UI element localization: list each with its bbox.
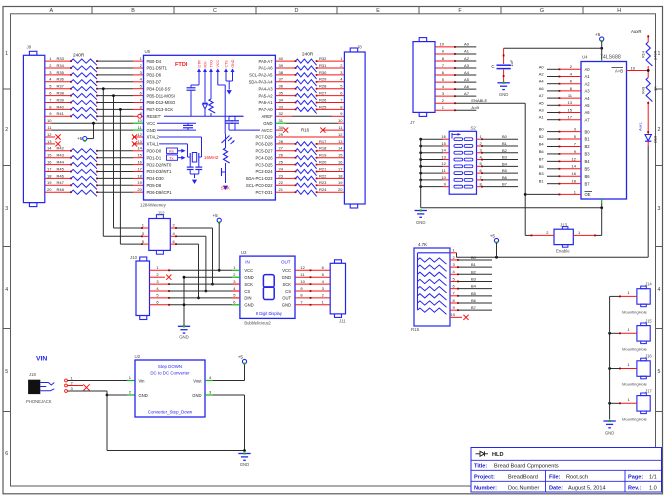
svg-text:R23: R23 (319, 180, 327, 185)
svg-text:C: C (213, 8, 217, 14)
svg-text:16: 16 (441, 134, 446, 139)
svg-text:PB0-D4: PB0-D4 (147, 59, 162, 64)
svg-text:U3: U3 (241, 250, 247, 255)
svg-text:PB7-D13-SCK: PB7-D13-SCK (147, 107, 174, 112)
svg-text:16: 16 (338, 160, 343, 165)
svg-text:XTAL2: XTAL2 (147, 135, 160, 140)
svg-text:2: 2 (658, 127, 661, 133)
svg-text:PC4-D26: PC4-D26 (255, 155, 273, 160)
svg-text:PC3-D25: PC3-D25 (255, 162, 273, 167)
svg-text:R17: R17 (319, 139, 327, 144)
svg-text:GND: GND (416, 220, 426, 225)
svg-text:34: 34 (279, 97, 284, 102)
svg-text:R48: R48 (57, 187, 65, 192)
svg-text:A5: A5 (585, 103, 591, 108)
svg-text:PB5-D11-MOSI: PB5-D11-MOSI (147, 93, 175, 98)
svg-text:VCC: VCC (244, 268, 253, 273)
svg-text:R24: R24 (319, 187, 327, 192)
svg-text:R35: R35 (57, 70, 65, 75)
svg-text:GND: GND (240, 462, 250, 467)
svg-text:Vin: Vin (139, 378, 146, 383)
svg-text:Date:: Date: (549, 485, 563, 491)
svg-text:10: 10 (47, 118, 52, 123)
svg-text:GND: GND (192, 393, 201, 398)
svg-text:VCC: VCC (282, 268, 291, 273)
svg-text:OUT: OUT (282, 296, 291, 301)
svg-text:A2: A2 (585, 81, 591, 86)
svg-text:10: 10 (300, 279, 305, 284)
svg-text:B4: B4 (585, 159, 591, 164)
svg-text:B1: B1 (502, 141, 508, 146)
svg-text:A4: A4 (464, 70, 470, 75)
svg-text:+5: +5 (490, 233, 496, 238)
svg-text:14: 14 (441, 148, 446, 153)
svg-text:R45: R45 (57, 166, 65, 171)
svg-text:19: 19 (338, 180, 343, 185)
svg-text:13: 13 (137, 139, 142, 144)
svg-text:A: A (49, 8, 53, 14)
svg-text:B7: B7 (502, 182, 508, 187)
svg-text:12: 12 (47, 132, 52, 137)
svg-text:A=B: A=B (615, 68, 623, 73)
svg-text:31: 31 (279, 118, 284, 123)
svg-text:MountingHole: MountingHole (622, 382, 647, 387)
svg-text:AREF: AREF (261, 114, 273, 119)
svg-text:B3: B3 (471, 276, 477, 281)
svg-text:GND: GND (499, 92, 509, 97)
svg-text:240R: 240R (653, 51, 658, 60)
svg-text:13: 13 (338, 139, 343, 144)
svg-text:B2: B2 (539, 134, 545, 139)
svg-text:U4: U4 (582, 55, 588, 60)
svg-text:R28: R28 (319, 84, 327, 89)
svg-text:12: 12 (572, 156, 577, 161)
svg-text:PB4-D10-SS': PB4-D10-SS' (147, 86, 172, 91)
svg-text:1.0: 1.0 (649, 485, 657, 491)
svg-text:16: 16 (137, 160, 142, 165)
svg-text:C: C (491, 64, 494, 69)
svg-text:15: 15 (137, 153, 142, 158)
svg-text:GND: GND (244, 303, 253, 308)
svg-text:PD6-D9/ICP1: PD6-D9/ICP1 (147, 190, 173, 195)
svg-text:S2: S2 (471, 126, 477, 131)
svg-text:13: 13 (47, 139, 52, 144)
svg-text:29: 29 (279, 132, 284, 137)
svg-text:+5: +5 (595, 32, 601, 37)
svg-text:A7: A7 (585, 117, 591, 122)
svg-text:R49: R49 (641, 87, 646, 94)
svg-text:13: 13 (441, 154, 446, 159)
svg-text:GND: GND (179, 335, 189, 340)
svg-text:J9: J9 (27, 45, 32, 50)
svg-text:R36: R36 (57, 77, 65, 82)
svg-text:PA4-A3: PA4-A3 (259, 86, 274, 91)
svg-text:A4: A4 (539, 79, 545, 84)
svg-text:4: 4 (5, 287, 8, 293)
svg-text:16MHZ: 16MHZ (204, 155, 219, 160)
svg-text:21: 21 (279, 187, 284, 192)
svg-text:PA7-A0: PA7-A0 (259, 107, 274, 112)
svg-text:R47: R47 (57, 180, 65, 185)
svg-text:D: D (295, 8, 299, 14)
svg-text:R39: R39 (57, 97, 65, 102)
svg-text:A6: A6 (539, 86, 545, 91)
svg-text:R46: R46 (57, 173, 65, 178)
svg-text:J8: J8 (357, 45, 362, 50)
svg-text:GND: GND (282, 303, 291, 308)
svg-text:Step DOWN: Step DOWN (158, 364, 182, 369)
svg-text:A5: A5 (464, 77, 470, 82)
svg-text:20: 20 (338, 187, 343, 192)
svg-text:240R: 240R (302, 52, 314, 57)
svg-text:R41: R41 (57, 111, 65, 116)
svg-text:B: B (131, 8, 135, 14)
svg-text:PB1-D5/T1: PB1-D5/T1 (147, 66, 168, 71)
svg-text:5: 5 (5, 369, 8, 375)
svg-text:R32: R32 (319, 56, 327, 61)
svg-text:PD0-D0: PD0-D0 (147, 149, 162, 154)
svg-text:B5: B5 (585, 167, 591, 172)
svg-text:AVCC: AVCC (261, 128, 272, 133)
svg-text:8 Digit Display: 8 Digit Display (256, 311, 283, 316)
svg-text:CS: CS (244, 289, 250, 294)
svg-text:14: 14 (137, 146, 142, 151)
svg-text:GND: GND (282, 275, 291, 280)
svg-text:20: 20 (47, 187, 52, 192)
svg-text:CS: CS (285, 289, 291, 294)
svg-text:H: H (617, 8, 621, 14)
svg-text:A2: A2 (539, 72, 545, 77)
svg-text:12: 12 (338, 132, 343, 137)
svg-text:J16: J16 (645, 354, 652, 359)
svg-text:19: 19 (47, 180, 52, 185)
svg-text:R44: R44 (57, 160, 65, 165)
svg-text:J14: J14 (645, 282, 652, 287)
svg-text:26: 26 (279, 153, 284, 158)
svg-text:August 5, 2014: August 5, 2014 (568, 485, 606, 491)
svg-text:1K: 1K (653, 86, 658, 91)
svg-text:DIN: DIN (244, 296, 251, 301)
svg-text:PB3-D7: PB3-D7 (147, 80, 162, 85)
svg-text:1: 1 (5, 51, 8, 57)
svg-text:B4: B4 (539, 141, 545, 146)
svg-text:XTAL1: XTAL1 (147, 142, 160, 147)
svg-text:1: 1 (658, 51, 661, 57)
svg-text:R15: R15 (411, 327, 420, 332)
svg-text:A0: A0 (585, 67, 591, 72)
svg-text:14: 14 (338, 146, 343, 151)
svg-text:A3: A3 (585, 89, 591, 94)
svg-text:35: 35 (279, 91, 284, 96)
svg-text:A6: A6 (585, 110, 591, 115)
svg-text:PA1-A6: PA1-A6 (259, 66, 274, 71)
svg-text:40: 40 (279, 56, 284, 61)
svg-text:PD1-D1: PD1-D1 (147, 155, 162, 160)
svg-text:J17: J17 (645, 389, 652, 394)
svg-text:R27: R27 (319, 91, 327, 96)
svg-text:MountingHole: MountingHole (622, 309, 647, 314)
svg-text:PB2-D6: PB2-D6 (147, 73, 162, 78)
svg-text:A3: A3 (464, 63, 470, 68)
svg-text:6: 6 (5, 451, 8, 457)
svg-text:16: 16 (572, 171, 577, 176)
svg-text:DC to DC Converter: DC to DC Converter (150, 371, 190, 376)
svg-text:PHONEJACK: PHONEJACK (26, 399, 52, 404)
svg-text:A5: A5 (539, 100, 545, 105)
svg-text:10: 10 (441, 175, 446, 180)
svg-text:Rev.:: Rev.: (628, 485, 641, 491)
svg-text:PD3-D3/INT1: PD3-D3/INT1 (147, 169, 173, 174)
svg-text:Bubblelicious2: Bubblelicious2 (244, 321, 271, 326)
svg-text:R26: R26 (319, 97, 327, 102)
svg-text:240R: 240R (73, 53, 85, 58)
svg-text:37: 37 (279, 77, 284, 82)
svg-text:A7: A7 (539, 93, 545, 98)
svg-text:R20: R20 (319, 160, 327, 165)
svg-text:5: 5 (658, 369, 661, 375)
svg-text:Title:: Title: (474, 463, 487, 469)
svg-text:A0: A0 (464, 42, 470, 47)
svg-text:J15: J15 (645, 319, 652, 324)
svg-text:10: 10 (338, 118, 343, 123)
svg-text:SDA-PA3-A4: SDA-PA3-A4 (249, 80, 274, 85)
svg-text:B4: B4 (502, 161, 508, 166)
svg-text:B1: B1 (539, 179, 545, 184)
svg-text:PD4-D30: PD4-D30 (147, 176, 165, 181)
svg-text:J11: J11 (339, 319, 346, 324)
svg-text:VIN: VIN (36, 356, 47, 363)
svg-text:A0: A0 (539, 64, 545, 69)
svg-text:MountingHole: MountingHole (622, 416, 647, 421)
svg-text:SCK: SCK (282, 282, 291, 287)
svg-text:18: 18 (137, 173, 142, 178)
svg-text:15: 15 (47, 153, 52, 158)
svg-text:GND: GND (147, 128, 156, 133)
svg-text:DTR: DTR (197, 60, 201, 68)
svg-text:25: 25 (279, 160, 284, 165)
svg-text:J12: J12 (158, 211, 166, 216)
svg-text:PC7-D29: PC7-D29 (255, 135, 273, 140)
svg-text:B1: B1 (471, 262, 477, 267)
svg-text:B6: B6 (502, 175, 508, 180)
svg-text:G: G (540, 8, 544, 14)
svg-text:R14: R14 (641, 50, 646, 58)
svg-text:18: 18 (338, 173, 343, 178)
svg-text:PA6-A1: PA6-A1 (259, 100, 274, 105)
svg-text:AuxL: AuxL (638, 121, 643, 131)
svg-text:R38: R38 (57, 91, 65, 96)
svg-text:32: 32 (279, 111, 284, 116)
svg-text:OUT: OUT (281, 260, 291, 265)
svg-text:Rx: Rx (169, 148, 174, 153)
svg-text:GND: GND (263, 121, 272, 126)
svg-text:GND: GND (605, 431, 615, 436)
svg-text:R30: R30 (319, 70, 327, 75)
svg-text:30: 30 (279, 125, 284, 130)
svg-text:22: 22 (279, 180, 284, 185)
svg-text:13: 13 (568, 100, 573, 105)
svg-text:PC7-D31: PC7-D31 (255, 190, 273, 195)
svg-text:B2: B2 (471, 269, 477, 274)
svg-text:12: 12 (441, 161, 446, 166)
svg-text:BreadBoard: BreadBoard (508, 474, 538, 480)
svg-text:19: 19 (137, 180, 142, 185)
svg-text:OE: OE (585, 192, 591, 197)
svg-text:PB6-D12-MISO: PB6-D12-MISO (147, 100, 177, 105)
svg-text:VCC: VCC (147, 121, 156, 126)
svg-text:B5: B5 (539, 164, 545, 169)
svg-text:VCC: VCC (216, 60, 220, 68)
svg-text:24: 24 (279, 166, 284, 171)
svg-text:17: 17 (47, 166, 52, 171)
svg-text:B3: B3 (502, 155, 508, 160)
svg-text:38: 38 (279, 70, 284, 75)
svg-text:A1: A1 (464, 49, 470, 54)
svg-text:R40: R40 (57, 104, 65, 109)
svg-text:File:: File: (549, 474, 561, 480)
svg-text:4.7K: 4.7K (418, 242, 427, 247)
svg-text:GND: GND (244, 275, 253, 280)
svg-text:1284Weeney: 1284Weeney (140, 203, 167, 208)
svg-text:R43: R43 (57, 153, 65, 158)
svg-text:AuxR: AuxR (631, 29, 642, 34)
svg-text:Page:: Page: (628, 474, 643, 480)
svg-text:R37: R37 (57, 84, 65, 89)
svg-text:3: 3 (5, 206, 8, 212)
svg-text:Bread Board Cpmponents: Bread Board Cpmponents (494, 463, 559, 469)
svg-text:15: 15 (441, 141, 446, 146)
svg-text:B3: B3 (539, 171, 545, 176)
svg-text:Number:: Number: (474, 485, 497, 491)
svg-text:GND: GND (139, 393, 148, 398)
svg-text:A1: A1 (539, 115, 545, 120)
svg-text:19: 19 (631, 65, 636, 70)
svg-text:B7: B7 (539, 156, 545, 161)
svg-text:Tx: Tx (169, 155, 173, 160)
svg-text:PD5-D8: PD5-D8 (147, 183, 162, 188)
svg-text:SCK: SCK (244, 282, 253, 287)
svg-text:R42: R42 (57, 146, 65, 151)
svg-text:Root.sch: Root.sch (566, 474, 588, 480)
svg-text:R33: R33 (57, 56, 65, 61)
svg-text:17: 17 (338, 166, 343, 171)
svg-text:U5: U5 (145, 49, 151, 54)
svg-text:IN: IN (245, 260, 250, 265)
svg-text:J18: J18 (29, 372, 37, 377)
svg-text:SDA-PC1-D23: SDA-PC1-D23 (246, 176, 274, 181)
svg-text:R25: R25 (319, 104, 327, 109)
svg-text:HLD: HLD (492, 452, 504, 458)
svg-text:R19: R19 (319, 153, 327, 158)
svg-text:14: 14 (47, 146, 52, 151)
svg-text:1uF: 1uF (509, 59, 514, 66)
svg-text:PC6-D28: PC6-D28 (255, 142, 273, 147)
svg-text:PD2-D2/INT0: PD2-D2/INT0 (147, 162, 173, 167)
svg-text:A2: A2 (464, 56, 470, 61)
svg-text:B5: B5 (471, 291, 477, 296)
svg-text:GND: GND (231, 59, 235, 67)
svg-text:B6: B6 (585, 174, 591, 179)
svg-text:12: 12 (300, 265, 305, 270)
svg-text:PA0-A7: PA0-A7 (259, 59, 274, 64)
svg-text:A3: A3 (539, 108, 545, 113)
svg-text:FTDI: FTDI (175, 62, 188, 68)
svg-text:18: 18 (572, 179, 577, 184)
svg-text:B0: B0 (471, 255, 477, 260)
svg-text:Project:: Project: (474, 474, 495, 480)
svg-text:36: 36 (279, 84, 284, 89)
svg-text:J7: J7 (410, 120, 415, 125)
svg-text:SCK: SCK (221, 186, 230, 191)
svg-text:17: 17 (137, 166, 142, 171)
svg-text:J13: J13 (560, 223, 568, 228)
svg-text:A7: A7 (464, 91, 470, 96)
svg-text:+5: +5 (238, 354, 244, 359)
svg-text:B2: B2 (585, 144, 591, 149)
svg-text:B0: B0 (502, 134, 508, 139)
svg-text:CTS: CTS (224, 60, 228, 68)
svg-text:20: 20 (137, 187, 142, 192)
svg-text:TXO: TXO (209, 60, 213, 68)
svg-text:+5: +5 (212, 213, 218, 218)
svg-text:Enable: Enable (556, 249, 570, 254)
svg-text:39: 39 (279, 63, 284, 68)
svg-text:4: 4 (658, 287, 661, 293)
svg-text:3: 3 (658, 206, 661, 212)
svg-text:B6: B6 (539, 149, 545, 154)
svg-text:SCL-PC0-D22: SCL-PC0-D22 (246, 183, 273, 188)
svg-text:28: 28 (279, 139, 284, 144)
svg-text:Vout: Vout (193, 378, 202, 383)
svg-text:+5: +5 (77, 136, 83, 141)
svg-text:B0: B0 (539, 127, 545, 132)
svg-text:PC5-D27: PC5-D27 (255, 149, 273, 154)
svg-text:RESET': RESET' (147, 114, 162, 119)
svg-text:16: 16 (47, 160, 52, 165)
svg-text:B3: B3 (585, 152, 591, 157)
svg-text:10: 10 (440, 42, 445, 47)
svg-text:Converter_Step_Down: Converter_Step_Down (148, 410, 193, 415)
svg-text:R16: R16 (301, 127, 310, 132)
svg-text:RXI: RXI (203, 62, 207, 68)
svg-text:A4: A4 (585, 96, 591, 101)
svg-text:ENABLE: ENABLE (471, 98, 487, 103)
svg-text:R31: R31 (319, 63, 327, 68)
svg-text:A=B: A=B (471, 105, 479, 110)
svg-text:B6: B6 (471, 298, 477, 303)
svg-text:R34: R34 (57, 63, 65, 68)
svg-text:U2: U2 (135, 354, 141, 359)
svg-text:15: 15 (338, 153, 343, 158)
svg-text:R29: R29 (319, 77, 327, 82)
svg-text:A1: A1 (585, 74, 591, 79)
svg-text:23: 23 (279, 173, 284, 178)
svg-text:B5: B5 (502, 168, 508, 173)
svg-text:74LS688: 74LS688 (600, 55, 621, 61)
svg-text:B4: B4 (471, 284, 477, 289)
svg-text:MountingHole: MountingHole (622, 346, 647, 351)
svg-text:12: 12 (137, 132, 142, 137)
svg-text:B0: B0 (585, 129, 591, 134)
svg-text:PA5-A2: PA5-A2 (259, 93, 274, 98)
svg-text:27: 27 (279, 146, 284, 151)
svg-text:SCL-PA2-A5: SCL-PA2-A5 (249, 73, 273, 78)
svg-text:2: 2 (5, 127, 8, 133)
svg-text:J10: J10 (130, 255, 138, 260)
svg-text:14: 14 (572, 164, 577, 169)
svg-text:1/1: 1/1 (649, 474, 657, 480)
svg-text:10: 10 (451, 312, 456, 317)
